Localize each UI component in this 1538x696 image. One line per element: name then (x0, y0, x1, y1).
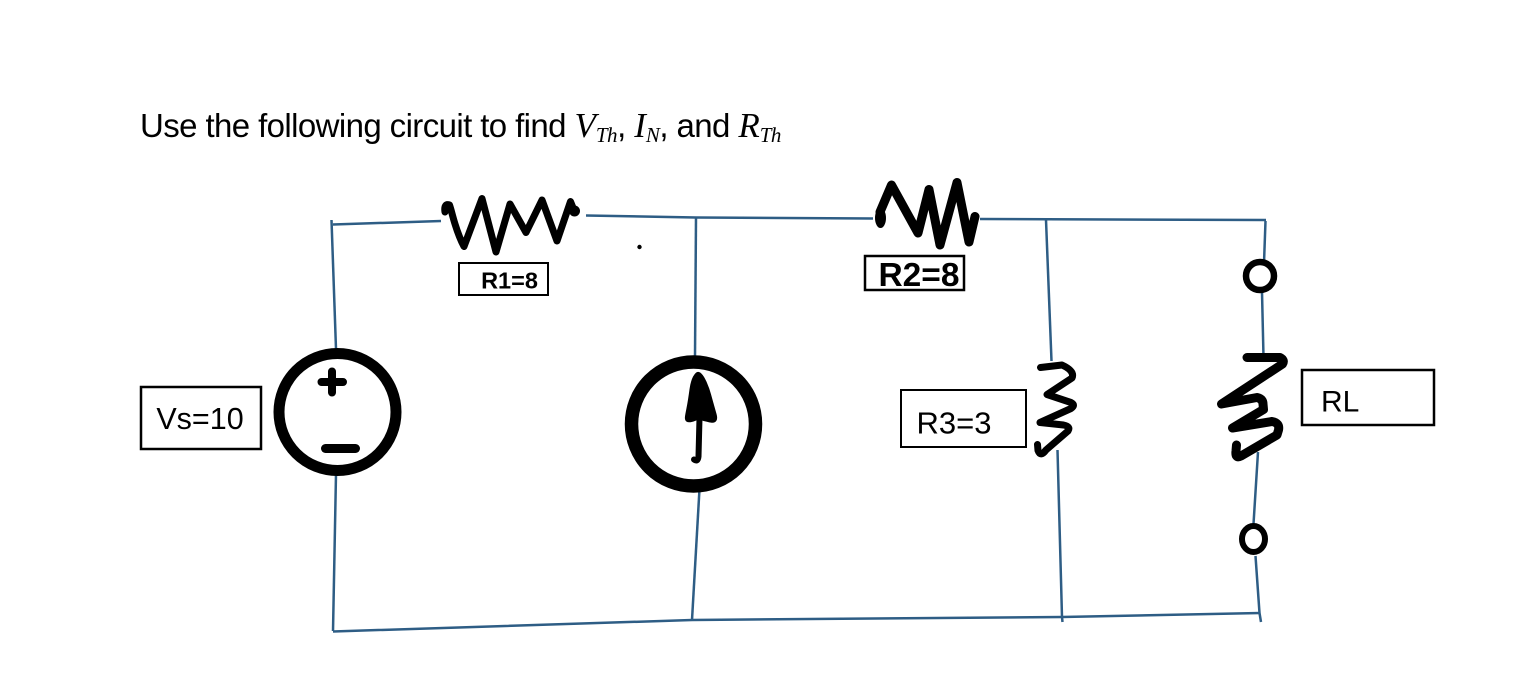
label box Vs=10 (141, 387, 261, 449)
wire node B to R3 top (1046, 220, 1052, 361)
resistor R2 start blob (875, 208, 886, 228)
svg-text:R2=8: R2=8 (878, 257, 959, 294)
voltage source V1 circle (279, 354, 396, 471)
current source arrow apex nub (694, 373, 702, 383)
wire R2 to top-right corner (980, 219, 1266, 220)
resistor R2 zigzag (880, 183, 975, 246)
resistor R3 zigzag (1038, 365, 1074, 454)
wire corner down to terminal (1264, 221, 1266, 263)
wire top-left horizontal (333, 221, 441, 225)
stray dot (637, 245, 641, 249)
svg-text:R3=3: R3=3 (917, 406, 992, 441)
wire Vs bottom to bottom rail (333, 474, 336, 631)
svg-text:R1=8: R1=8 (481, 268, 538, 294)
wire lower terminal to bottom rail (1256, 556, 1262, 622)
terminal b (lower) (1242, 526, 1265, 552)
wire bottom rail (333, 613, 1261, 632)
wire current source bottom to rail (692, 489, 700, 620)
wire RL bottom to lower terminal (1254, 452, 1259, 524)
wire terminal to RL top (1262, 292, 1264, 357)
svg-text:RL: RL (1321, 386, 1359, 419)
voltage source minus sign (326, 444, 356, 453)
current source arrow head (686, 373, 716, 421)
svg-text:Vs=10: Vs=10 (156, 402, 243, 436)
wire node A to current source top (695, 218, 696, 357)
resistor R1 zigzag (445, 199, 574, 253)
wire left vertical (top rail to Vs) (332, 220, 337, 349)
label box R3=3 (901, 390, 1026, 447)
wire R1 to node A to R2 (586, 216, 873, 219)
voltage source plus sign (322, 372, 344, 393)
resistor R1 end blob (569, 206, 580, 217)
label box R1=8 (459, 263, 548, 295)
terminal a (upper) (1246, 262, 1274, 290)
resistor RL zigzag (1222, 358, 1284, 457)
wire R3 bottom to rail (1058, 450, 1063, 622)
current source arrow shaft (694, 418, 700, 461)
title text (140, 106, 781, 148)
label box RL (1302, 370, 1434, 425)
label box R2=8 (865, 256, 964, 294)
current source I1 circle (632, 362, 756, 486)
